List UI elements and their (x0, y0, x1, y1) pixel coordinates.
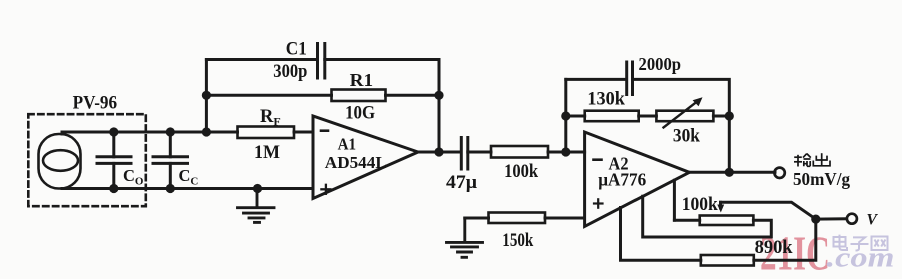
node V junction (811, 215, 820, 224)
capacitor Co (97, 132, 131, 189)
node A2 output (725, 168, 734, 177)
node top rail / Co (109, 127, 118, 136)
enclosure PV-96 dashed box (28, 114, 146, 206)
wire 100k to A2 inverting input (548, 151, 585, 154)
wire offset pin to 890k (left) (621, 208, 701, 261)
resistor 100k series (491, 146, 548, 158)
wire A2 feedback bus left vertical (564, 79, 567, 152)
transducer PV-96 body (39, 134, 81, 189)
wire ground to 150k (465, 217, 489, 220)
label output chinese shu (794, 154, 811, 167)
wire pot left stub (674, 219, 699, 222)
svg-text:890k: 890k (755, 238, 794, 258)
node 30k / right bus (725, 111, 734, 120)
node bottom rail / Cc (166, 184, 175, 193)
svg-text:150k: 150k (502, 231, 534, 251)
node A2 input / bus (561, 147, 570, 156)
svg-text:10G: 10G (345, 104, 375, 124)
wire offset pin to pot right end (643, 196, 772, 237)
svg-text:C1: C1 (286, 40, 307, 60)
node input rail / feedback bus (202, 127, 211, 136)
resistor 130k (585, 111, 639, 122)
terminal output circle (774, 168, 784, 178)
wire 30k right to bus (713, 115, 729, 118)
svg-text:R1: R1 (350, 70, 374, 90)
terminal V circle (847, 214, 857, 224)
svg-text:μA776: μA776 (598, 170, 646, 190)
node bottom rail / Co (109, 184, 118, 193)
watermark char dian (834, 235, 848, 250)
svg-text:50mV/g: 50mV/g (793, 169, 850, 189)
label plus of A2 (594, 199, 603, 207)
label minus of A2 (594, 158, 602, 161)
wire R1 rail right (386, 94, 440, 97)
watermark char zi (851, 237, 869, 250)
svg-text:130k: 130k (587, 89, 625, 109)
wire 2000p rail right (633, 79, 730, 172)
wire wiper to V node (721, 202, 816, 219)
svg-text:A1: A1 (338, 135, 357, 154)
wire 130k rail left (566, 115, 585, 118)
wire input top rail (62, 132, 238, 134)
node bottom rail / ground (253, 184, 262, 193)
watermark char wang (872, 237, 888, 251)
resistor R1 (332, 90, 386, 102)
wire input bottom rail (62, 187, 313, 190)
op-amp A1 (313, 116, 418, 199)
op-amp A2 (585, 132, 690, 226)
capacitor C1 (318, 44, 325, 79)
svg-text:CO: CO (123, 166, 144, 188)
ground under 150k (447, 218, 483, 257)
svg-text:100k: 100k (682, 195, 719, 215)
watermark 21IC logo (760, 226, 895, 279)
svg-text:300p: 300p (273, 62, 307, 82)
svg-text:AD544L: AD544L (325, 153, 387, 172)
svg-text:PV-96: PV-96 (73, 94, 118, 114)
svg-text:47μ: 47μ (446, 173, 478, 193)
wiper arrow of 100k pot (717, 202, 724, 212)
node R1 rail / output vertical (434, 91, 443, 100)
ground under A1 (238, 189, 275, 223)
wire Rp to A1 inverting input (294, 131, 313, 134)
wire 130k to 30k (639, 115, 657, 118)
svg-text:100k: 100k (504, 162, 539, 182)
resistor 890k (701, 255, 754, 266)
svg-text:RF: RF (260, 107, 281, 129)
capacitor Cc (153, 132, 188, 189)
node bus / 130k rail (561, 111, 570, 120)
wire 150k to A2 plus input (545, 217, 584, 220)
svg-text:30k: 30k (673, 127, 701, 147)
svg-text:CC: CC (179, 166, 199, 188)
svg-text:.com: .com (827, 242, 895, 274)
node A1 output (434, 147, 443, 156)
capacitor 2000p (627, 62, 633, 95)
wire A1 output (418, 151, 461, 154)
potentiometer 100k (700, 216, 754, 226)
transducer PV-96 inner ellipse (43, 150, 78, 171)
wire V node to terminal (816, 217, 847, 220)
wire 47u to 100k (468, 151, 491, 154)
wire C1 rail left (206, 58, 317, 61)
node top rail / Cc (166, 127, 175, 136)
capacitor 47u (461, 138, 468, 170)
wire A2 output (689, 171, 775, 174)
wire pot left to A2 pin (673, 180, 676, 220)
wire 890k right to V node (754, 219, 816, 260)
resistor 150k (489, 213, 546, 224)
wire R1 rail left (206, 94, 331, 97)
svg-text:1M: 1M (254, 143, 280, 163)
wire C1 rail right (325, 60, 439, 153)
label minus of A1 (321, 129, 328, 132)
resistor Rp (238, 127, 295, 139)
label plus of A1 (321, 185, 330, 194)
svg-text:2000p: 2000p (639, 54, 682, 74)
resistor 30k variable (656, 97, 713, 127)
label output chinese chu (813, 153, 830, 166)
svg-text:V: V (867, 212, 879, 229)
wire feedback bus vertical (205, 60, 208, 133)
wire 2000p rail left (566, 78, 627, 81)
node bus / R1 rail (202, 91, 211, 100)
